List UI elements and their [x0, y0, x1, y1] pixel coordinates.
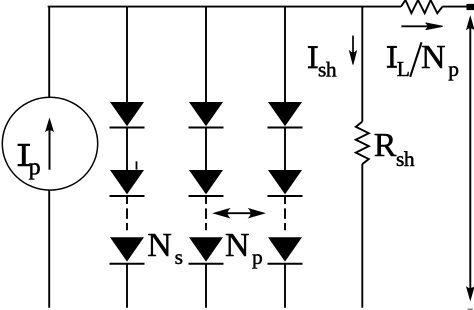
diode D11 — [110, 102, 145, 128]
label Ns — [147, 227, 183, 269]
svg-text:N: N — [225, 227, 250, 264]
wire Rsh branch (top segment) — [361, 7, 363, 122]
output terminal block (top-right corner) — [467, 4, 474, 10]
wire column 2 between D21 and D22 — [205, 128, 207, 172]
svg-text:sh: sh — [396, 147, 415, 171]
label Np — [225, 227, 263, 269]
label Rsh — [374, 127, 415, 171]
diode D33 — [268, 237, 303, 263]
diode D13 — [110, 237, 145, 263]
voltage arrow (right edge, double-headed vertical) — [466, 15, 474, 302]
wire column 2 bottom — [205, 264, 207, 308]
wire left bus (bottom segment) — [48, 190, 50, 308]
label Ish — [308, 46, 337, 81]
wire column 2 dashed continuation — [205, 197, 207, 238]
arrow IL/Np (current direction, right-pointing) — [401, 23, 442, 30]
svg-text:p: p — [448, 57, 459, 81]
svg-text:N: N — [147, 227, 172, 264]
svg-text:sh: sh — [318, 57, 337, 81]
wire column 1 dashed continuation — [126, 197, 128, 238]
svg-text:N: N — [421, 39, 446, 76]
wire left bus (top segment) — [48, 7, 50, 97]
double-headed arrow (Np column spacing) — [213, 209, 264, 218]
diode D31 — [268, 102, 303, 128]
bottom terminal stub (cropped, bottom-right) — [468, 308, 473, 310]
resistor Rs (series, top right) — [401, 0, 443, 13]
arrow inside current source — [45, 117, 54, 169]
wire column 3 bottom — [284, 264, 286, 308]
svg-text:p: p — [29, 155, 41, 181]
wire top bus — [48, 6, 467, 8]
label Ip — [18, 144, 41, 181]
resistor Rsh (shunt, vertical zigzag) — [356, 122, 369, 165]
diode D12 — [110, 170, 145, 196]
diode string column 1 : top wire — [126, 7, 128, 103]
current source Ip (circle) — [2, 97, 97, 190]
diode string column 3 : top wire — [284, 7, 286, 103]
diode D23 — [189, 237, 224, 263]
diode D21 — [189, 102, 224, 128]
wire column 1 between D11 and D12 — [126, 128, 128, 172]
wire column 1 bottom — [126, 264, 128, 308]
label IL/Np — [387, 39, 459, 81]
arrow Ish (downward) — [350, 36, 357, 65]
svg-text:L: L — [397, 57, 410, 81]
diode D32 — [268, 170, 303, 196]
svg-text:s: s — [175, 245, 183, 269]
svg-text:R: R — [374, 127, 397, 164]
diode string column 2 : top wire — [205, 7, 207, 103]
wire Rsh branch (bottom segment) — [361, 164, 363, 308]
diode D22 — [189, 170, 224, 196]
stray tick mark (column 1) — [136, 161, 138, 169]
wire column 3 dashed continuation — [284, 197, 286, 238]
svg-text:p: p — [252, 245, 263, 269]
wire column 3 between D31 and D32 — [284, 128, 286, 172]
